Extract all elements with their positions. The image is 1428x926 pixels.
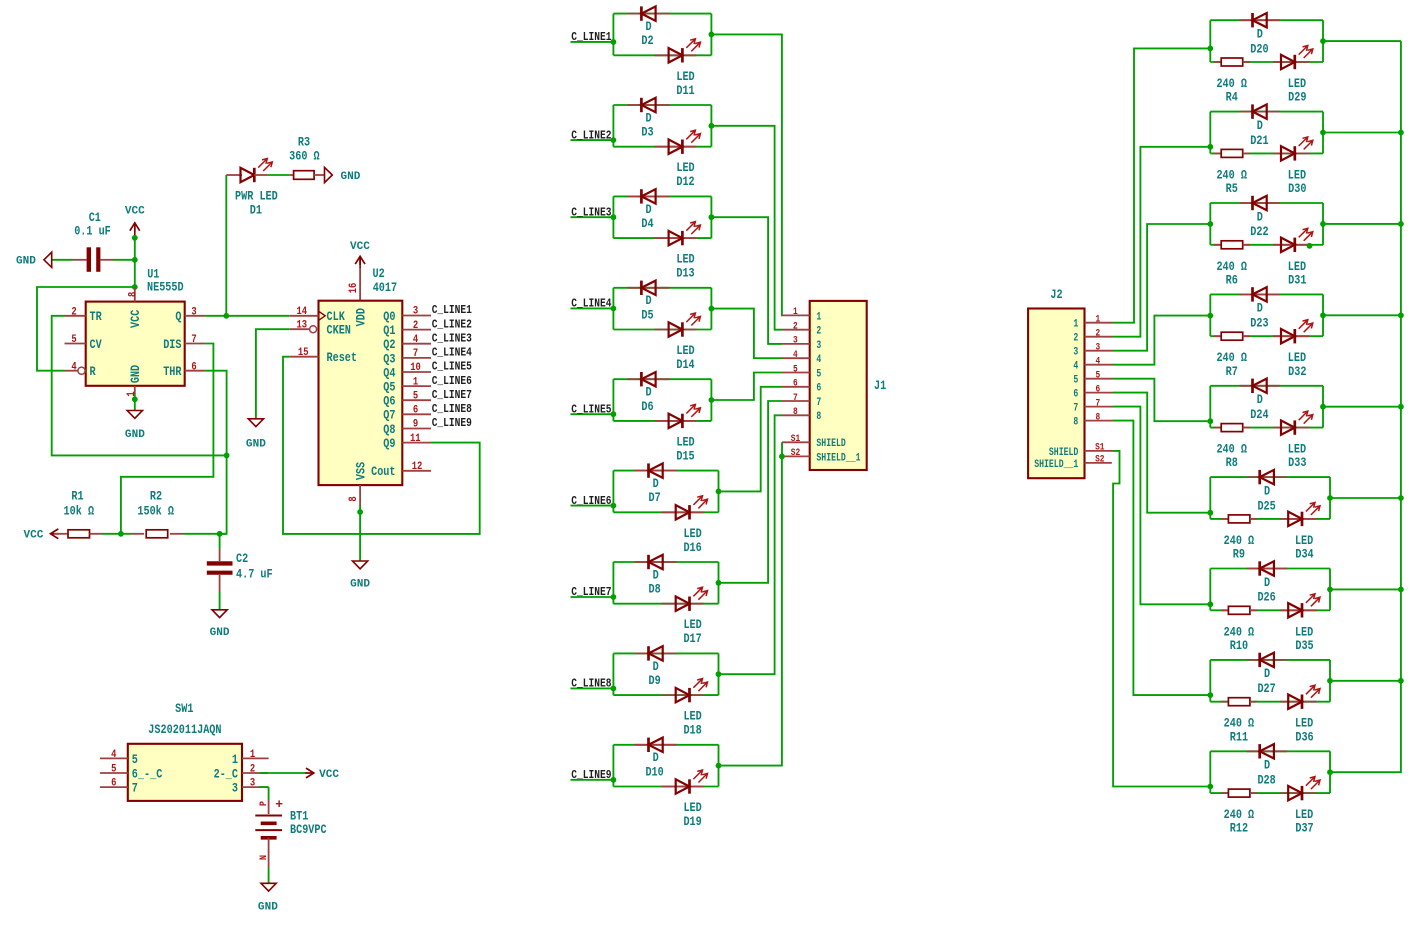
diode D5 bbox=[627, 281, 669, 323]
svg-text:15: 15 bbox=[298, 347, 309, 359]
diode D3 bbox=[627, 98, 669, 140]
svg-text:NE555D: NE555D bbox=[147, 280, 184, 294]
junction bus at cell6 bbox=[1398, 495, 1404, 501]
svg-text:C_LINE7: C_LINE7 bbox=[571, 585, 611, 599]
pin 3 of J2 bbox=[1073, 342, 1113, 359]
svg-text:BC9VPC: BC9VPC bbox=[290, 823, 327, 837]
pin 5 of J1 bbox=[782, 363, 821, 380]
node C_LINE5 label bbox=[571, 402, 614, 416]
svg-text:C_LINE1: C_LINE1 bbox=[571, 30, 611, 44]
wire cell9 output to J1 shield bbox=[719, 456, 782, 765]
svg-text:GND: GND bbox=[125, 429, 145, 441]
svg-text:1: 1 bbox=[816, 311, 821, 323]
svg-text:C1: C1 bbox=[89, 211, 102, 225]
svg-text:J2: J2 bbox=[1050, 288, 1062, 302]
junction cell1 output tap bbox=[709, 32, 715, 38]
junction C_LINE6 label lead bbox=[611, 503, 617, 509]
pin Q8 of U2 (pin 9) with net label C_LINE9 bbox=[383, 416, 472, 437]
wire cell7 output to J1 pin 7 bbox=[719, 401, 783, 583]
svg-text:240 Ω: 240 Ω bbox=[1224, 808, 1255, 822]
svg-text:3: 3 bbox=[793, 335, 798, 346]
pin 2 TR of U1 bbox=[65, 307, 103, 325]
pin Q6 of U2 (pin 5) with net label C_LINE7 bbox=[383, 388, 472, 409]
svg-text:D27: D27 bbox=[1257, 682, 1275, 696]
ground GND (CKEN) bbox=[246, 419, 266, 451]
wire SW1 pin3 to BT1 bbox=[268, 787, 270, 800]
svg-text:R9: R9 bbox=[1233, 548, 1245, 562]
wire cell8 output to common bus bbox=[1330, 680, 1401, 682]
resistor R3 bbox=[289, 136, 324, 180]
svg-text:2: 2 bbox=[413, 320, 418, 332]
svg-text:C_LINE8: C_LINE8 bbox=[571, 677, 611, 691]
wire cell4 output to common bus bbox=[1323, 314, 1401, 316]
svg-text:4017: 4017 bbox=[373, 281, 397, 295]
junction cell9 output tap (right) bbox=[1327, 769, 1333, 775]
pin 2 of J2 bbox=[1073, 328, 1113, 345]
svg-text:R2: R2 bbox=[150, 489, 162, 503]
svg-text:C_LINE3: C_LINE3 bbox=[571, 205, 611, 219]
svg-text:C_LINE4: C_LINE4 bbox=[571, 297, 611, 311]
svg-text:D4: D4 bbox=[641, 217, 654, 231]
svg-text:LED: LED bbox=[1288, 260, 1307, 274]
node C_LINE1 cell loop wires bbox=[613, 14, 711, 56]
svg-text:2: 2 bbox=[816, 326, 821, 338]
svg-text:5: 5 bbox=[132, 753, 138, 767]
node C_LINE8 cell loop wires bbox=[613, 653, 718, 695]
svg-text:1: 1 bbox=[793, 306, 798, 317]
LED D11 bbox=[655, 39, 701, 98]
svg-text:C_LINE6: C_LINE6 bbox=[571, 494, 611, 508]
svg-text:D26: D26 bbox=[1257, 591, 1275, 605]
svg-text:R5: R5 bbox=[1226, 182, 1238, 196]
svg-text:GND: GND bbox=[129, 365, 143, 384]
svg-text:16: 16 bbox=[348, 283, 360, 294]
svg-text:TR: TR bbox=[90, 310, 103, 324]
pin Q4 of U2 (pin 10) with net label C_LINE5 bbox=[383, 360, 472, 381]
junction C2 top bbox=[217, 531, 223, 537]
svg-text:5: 5 bbox=[793, 363, 798, 374]
svg-text:Q2: Q2 bbox=[383, 338, 395, 352]
svg-text:D3: D3 bbox=[641, 126, 653, 140]
diode D10 bbox=[635, 738, 677, 780]
resistor R4 bbox=[1214, 58, 1250, 105]
pin 5 of J2 bbox=[1073, 370, 1113, 387]
svg-text:5: 5 bbox=[816, 368, 821, 380]
resistor R9 bbox=[1221, 515, 1257, 562]
LED D16 bbox=[662, 496, 708, 555]
svg-text:D1: D1 bbox=[250, 204, 263, 218]
svg-text:8: 8 bbox=[127, 291, 139, 296]
svg-text:2: 2 bbox=[250, 764, 255, 776]
svg-text:D34: D34 bbox=[1295, 548, 1314, 562]
ground GND (left of C1) bbox=[16, 252, 52, 267]
junction bus at cell2 bbox=[1398, 130, 1404, 136]
pin 2 of J1 bbox=[782, 321, 821, 338]
svg-text:Q9: Q9 bbox=[383, 437, 395, 451]
svg-text:2: 2 bbox=[793, 321, 798, 332]
power VCC (above U2) bbox=[350, 241, 370, 268]
svg-text:THR: THR bbox=[163, 365, 182, 379]
diode D6 bbox=[627, 372, 669, 414]
svg-text:CKEN: CKEN bbox=[327, 324, 351, 338]
junction cell9 input bbox=[1207, 784, 1213, 790]
svg-text:R1: R1 bbox=[71, 489, 84, 503]
node C_LINE6 cell loop wires bbox=[613, 471, 718, 513]
svg-text:240 Ω: 240 Ω bbox=[1224, 534, 1255, 548]
junction R1/R2/DIS bbox=[118, 531, 124, 537]
node C_LINE7 cell loop wires bbox=[613, 562, 718, 604]
svg-text:1: 1 bbox=[250, 749, 255, 761]
node LINE6 receiver cell loop wires bbox=[1210, 477, 1330, 519]
svg-text:Q: Q bbox=[175, 310, 181, 324]
svg-text:LED: LED bbox=[676, 435, 695, 449]
junction cell3 output tap bbox=[709, 214, 715, 220]
svg-text:D30: D30 bbox=[1288, 182, 1306, 196]
svg-text:GND: GND bbox=[258, 902, 278, 914]
svg-text:4.7 uF: 4.7 uF bbox=[236, 567, 273, 581]
junction cell2 output tap bbox=[709, 123, 715, 129]
svg-text:D: D bbox=[1257, 119, 1263, 133]
node LINE3 receiver cell loop wires bbox=[1210, 203, 1323, 245]
svg-text:Q1: Q1 bbox=[383, 324, 396, 338]
svg-text:D: D bbox=[1264, 484, 1270, 498]
svg-text:D: D bbox=[1264, 667, 1270, 681]
svg-text:D: D bbox=[1264, 576, 1270, 590]
LED D14 bbox=[655, 313, 701, 372]
pin 15 Reset of U2 bbox=[290, 347, 357, 365]
diode D23 bbox=[1240, 287, 1280, 330]
svg-text:D: D bbox=[646, 386, 652, 400]
LED D15 bbox=[655, 404, 701, 463]
junction cell5 output tap bbox=[709, 397, 715, 403]
svg-text:C_LINE6: C_LINE6 bbox=[432, 374, 472, 388]
svg-text:C_LINE9: C_LINE9 bbox=[571, 768, 611, 782]
wire node A down to R2/C2 row bbox=[220, 455, 227, 533]
diode D9 bbox=[635, 646, 677, 688]
svg-text:VDD: VDD bbox=[354, 308, 368, 327]
svg-text:C_LINE3: C_LINE3 bbox=[432, 331, 472, 345]
wire cell4 output to J1 pin 4 bbox=[711, 309, 782, 359]
svg-text:D: D bbox=[1257, 28, 1263, 42]
node C_LINE6 label bbox=[571, 494, 614, 508]
pin Q9 of U2 (pin 11) bbox=[383, 433, 431, 451]
pin 5 of SW1 (left) bbox=[100, 764, 163, 782]
svg-text:C2: C2 bbox=[236, 552, 248, 566]
svg-text:SHIELD__1: SHIELD__1 bbox=[1034, 459, 1078, 471]
svg-text:VSS: VSS bbox=[354, 462, 368, 481]
svg-text:1: 1 bbox=[232, 753, 238, 767]
svg-text:4: 4 bbox=[793, 349, 798, 360]
resistor R10 bbox=[1221, 606, 1257, 653]
svg-text:N: N bbox=[259, 855, 270, 860]
svg-text:Q6: Q6 bbox=[383, 395, 395, 409]
svg-text:D33: D33 bbox=[1288, 456, 1306, 470]
wire R2 to node A corner bbox=[121, 533, 131, 535]
wire SW1 pin2 to VCC bbox=[269, 772, 307, 774]
svg-text:D: D bbox=[646, 203, 652, 217]
svg-text:6: 6 bbox=[191, 361, 196, 373]
svg-text:0.1 uF: 0.1 uF bbox=[74, 224, 111, 238]
svg-text:1: 1 bbox=[1073, 319, 1078, 331]
svg-text:D5: D5 bbox=[641, 308, 653, 322]
svg-text:GND: GND bbox=[350, 579, 370, 591]
svg-text:8: 8 bbox=[348, 496, 360, 501]
pin 4 R of U1 (inverted) bbox=[65, 361, 96, 379]
wire Q junction up to LED D1 bbox=[225, 175, 227, 316]
pin S2 SHIELD__1 of J2 bbox=[1034, 454, 1112, 471]
resistor R2 bbox=[131, 489, 184, 537]
wire cell1 output to J1 pin 1 bbox=[711, 34, 782, 315]
svg-text:D: D bbox=[1257, 210, 1263, 224]
resistor R8 bbox=[1214, 424, 1250, 471]
wire cell5 output to J1 pin 5 bbox=[711, 373, 782, 401]
svg-text:3: 3 bbox=[1095, 342, 1100, 353]
svg-text:D29: D29 bbox=[1288, 91, 1306, 105]
svg-text:D8: D8 bbox=[649, 583, 661, 597]
battery BT1 BC9VPC bbox=[255, 797, 327, 868]
junction cell1 input bbox=[1207, 46, 1213, 52]
wire J2 pin 3 to cell3 input bbox=[1113, 224, 1210, 351]
svg-text:LED: LED bbox=[1295, 717, 1314, 731]
svg-text:GND: GND bbox=[210, 627, 230, 639]
node LINE1 receiver cell loop wires bbox=[1210, 20, 1323, 62]
svg-text:240 Ω: 240 Ω bbox=[1216, 168, 1247, 182]
pin 3 of J1 bbox=[782, 335, 821, 352]
node C_LINE4 label bbox=[571, 297, 614, 311]
diode D28 bbox=[1247, 744, 1287, 787]
pin S1 SHIELD of J2 bbox=[1049, 442, 1113, 459]
svg-text:2: 2 bbox=[71, 307, 76, 319]
svg-text:Q5: Q5 bbox=[383, 381, 395, 395]
svg-text:D36: D36 bbox=[1295, 730, 1313, 744]
svg-text:Q3: Q3 bbox=[383, 352, 395, 366]
diode D25 bbox=[1247, 470, 1287, 513]
svg-text:D2: D2 bbox=[641, 34, 653, 48]
svg-text:S1: S1 bbox=[791, 433, 800, 444]
svg-text:LED: LED bbox=[1288, 351, 1307, 365]
wire J2 pin 4 to cell4 input bbox=[1113, 316, 1210, 365]
svg-text:D23: D23 bbox=[1250, 317, 1268, 331]
svg-text:R10: R10 bbox=[1230, 639, 1248, 653]
svg-text:S1: S1 bbox=[1095, 442, 1104, 453]
ground GND (under U1) bbox=[125, 411, 145, 442]
LED D32 bbox=[1273, 320, 1313, 379]
svg-text:LED: LED bbox=[1295, 625, 1314, 639]
svg-text:8: 8 bbox=[816, 411, 821, 423]
svg-text:6: 6 bbox=[111, 778, 116, 790]
svg-text:12: 12 bbox=[412, 461, 423, 473]
node C_LINE2 cell loop wires bbox=[613, 105, 711, 147]
LED D37 bbox=[1280, 777, 1320, 836]
junction stray (cell3 LED output) bbox=[1307, 243, 1313, 249]
junction cell8 input bbox=[1207, 692, 1213, 698]
svg-text:CV: CV bbox=[90, 338, 103, 352]
diode D7 bbox=[635, 463, 677, 505]
pin 4 of SW1 (left) bbox=[100, 749, 138, 767]
svg-text:LED: LED bbox=[1288, 443, 1307, 457]
svg-text:1: 1 bbox=[126, 391, 138, 396]
LED D35 bbox=[1280, 594, 1320, 653]
wire J2 S1 shield to cell9 input bbox=[1113, 451, 1210, 787]
svg-text:5: 5 bbox=[111, 764, 116, 776]
diode D22 bbox=[1240, 196, 1280, 239]
svg-text:VCC: VCC bbox=[125, 206, 145, 218]
LED D33 bbox=[1273, 411, 1313, 470]
junction cell4 output tap (right) bbox=[1320, 312, 1326, 318]
svg-text:3: 3 bbox=[191, 307, 196, 319]
svg-text:D32: D32 bbox=[1288, 365, 1306, 379]
svg-text:1: 1 bbox=[1095, 314, 1100, 325]
connector J1 body bbox=[810, 301, 887, 470]
svg-text:7: 7 bbox=[132, 782, 138, 796]
junction bus at cell8 bbox=[1398, 678, 1404, 684]
svg-text:D: D bbox=[653, 568, 659, 582]
pin Q1 of U2 (pin 2) with net label C_LINE2 bbox=[383, 317, 472, 338]
pin 1 of SW1 (right) bbox=[232, 749, 269, 767]
svg-text:LED: LED bbox=[683, 710, 702, 724]
svg-text:3: 3 bbox=[413, 306, 418, 318]
svg-text:LED: LED bbox=[676, 253, 695, 267]
svg-text:VCC: VCC bbox=[319, 769, 339, 781]
pin 2 of SW1 (right) bbox=[214, 764, 269, 782]
svg-text:D: D bbox=[653, 477, 659, 491]
resistor R12 bbox=[1221, 789, 1257, 836]
junction cell9 output tap bbox=[716, 763, 722, 769]
pin Cout of U2 (pin 12) bbox=[371, 461, 431, 479]
wire J2 pin 6 to cell6 input bbox=[1113, 393, 1210, 513]
svg-text:D9: D9 bbox=[649, 674, 661, 688]
node LINE7 receiver cell loop wires bbox=[1210, 569, 1330, 611]
wire cell8 output to J1 pin 8 bbox=[719, 415, 783, 674]
junction cell7 output tap (right) bbox=[1327, 587, 1333, 593]
LED D1 PWR LED bbox=[226, 159, 278, 218]
pin 6 of J2 bbox=[1073, 383, 1113, 400]
pin 7 DIS of U1 bbox=[163, 334, 205, 352]
wire cell6 output to J1 pin 6 bbox=[719, 387, 783, 492]
junction cell5 output tap (right) bbox=[1320, 404, 1326, 410]
capacitor C2 bbox=[207, 549, 273, 592]
node LINE4 receiver cell loop wires bbox=[1210, 294, 1323, 336]
pin 5 CV of U1 bbox=[65, 334, 103, 352]
LED D30 bbox=[1273, 137, 1313, 196]
wire U1 pin1 to GND bbox=[134, 394, 136, 411]
svg-text:C_LINE9: C_LINE9 bbox=[432, 416, 472, 430]
ground GND (under C2) bbox=[210, 610, 230, 639]
svg-text:GND: GND bbox=[246, 439, 266, 451]
pin Q2 of U2 (pin 4) with net label C_LINE3 bbox=[383, 331, 472, 352]
wire common bus down to cell9 output bbox=[1330, 41, 1401, 772]
pin 16 VDD lead of U2 bbox=[348, 268, 360, 301]
svg-text:240 Ω: 240 Ω bbox=[1216, 443, 1247, 457]
svg-text:R8: R8 bbox=[1226, 456, 1238, 470]
svg-text:D16: D16 bbox=[683, 541, 701, 555]
svg-text:240 Ω: 240 Ω bbox=[1224, 717, 1255, 731]
svg-text:P: P bbox=[259, 801, 270, 806]
svg-text:D22: D22 bbox=[1250, 225, 1268, 239]
wire cell1 output to common bus bbox=[1323, 40, 1401, 42]
svg-text:D: D bbox=[653, 660, 659, 674]
pin Q5 of U2 (pin 1) with net label C_LINE6 bbox=[383, 374, 472, 395]
wire SW1 pin3 green overlay bbox=[259, 786, 268, 788]
junction cell6 input bbox=[1207, 510, 1213, 516]
svg-text:JS202011JAQN: JS202011JAQN bbox=[148, 723, 221, 737]
svg-text:LED: LED bbox=[1288, 77, 1307, 91]
svg-text:6_-_C: 6_-_C bbox=[132, 767, 163, 781]
svg-text:LED: LED bbox=[683, 618, 702, 632]
svg-text:S2: S2 bbox=[1095, 454, 1104, 465]
svg-text:SHIELD: SHIELD bbox=[816, 438, 845, 450]
svg-text:U1: U1 bbox=[147, 268, 160, 282]
wire R1 to junction bbox=[102, 533, 121, 535]
svg-text:D7: D7 bbox=[649, 491, 661, 505]
ground GND (under BT1) bbox=[258, 883, 278, 913]
pin S2 SHIELD__1 of J1 bbox=[782, 447, 861, 464]
svg-text:D: D bbox=[646, 111, 652, 125]
junction cell7 output tap bbox=[716, 580, 722, 586]
svg-text:LED: LED bbox=[676, 70, 695, 84]
svg-text:3: 3 bbox=[1073, 347, 1078, 359]
svg-text:9: 9 bbox=[413, 419, 418, 431]
svg-text:240 Ω: 240 Ω bbox=[1216, 351, 1247, 365]
svg-text:D19: D19 bbox=[683, 815, 701, 829]
svg-text:GND: GND bbox=[16, 255, 36, 267]
svg-text:10k Ω: 10k Ω bbox=[64, 505, 95, 519]
svg-text:D20: D20 bbox=[1250, 42, 1268, 56]
wire J1 S1 to S2 bbox=[781, 442, 783, 456]
pin 6 of J1 bbox=[782, 378, 821, 395]
resistor R5 bbox=[1214, 149, 1250, 196]
svg-text:D31: D31 bbox=[1288, 273, 1307, 287]
pin 8 VCC of U1 (top) bbox=[127, 287, 143, 328]
wire C1 to GND bbox=[51, 259, 72, 261]
junction cell6 output tap (right) bbox=[1327, 495, 1333, 501]
svg-text:Q7: Q7 bbox=[383, 409, 395, 423]
pin 7 of J1 bbox=[782, 392, 821, 409]
LED D17 bbox=[662, 587, 708, 646]
svg-text:10: 10 bbox=[410, 362, 421, 374]
svg-text:C_LINE2: C_LINE2 bbox=[571, 128, 611, 142]
svg-text:3: 3 bbox=[816, 340, 821, 352]
svg-text:5: 5 bbox=[413, 390, 418, 402]
wire Q output to CLK bbox=[205, 315, 290, 317]
wire J2 pin 1 to cell1 input bbox=[1113, 48, 1210, 322]
diode D27 bbox=[1247, 653, 1287, 696]
wire BT1 to GND bbox=[268, 868, 270, 883]
LED D19 bbox=[662, 770, 708, 829]
wire DIS to R1/R2 junction bbox=[121, 344, 213, 534]
node C_LINE8 label bbox=[571, 677, 614, 691]
svg-text:D15: D15 bbox=[676, 449, 694, 463]
switch SW1 JS202011JAQN body bbox=[128, 702, 242, 801]
svg-text:8: 8 bbox=[793, 406, 798, 417]
svg-text:2-_C: 2-_C bbox=[214, 767, 239, 781]
svg-text:LED: LED bbox=[1295, 808, 1314, 822]
svg-text:D21: D21 bbox=[1250, 134, 1269, 148]
svg-text:2: 2 bbox=[1073, 333, 1078, 345]
svg-text:R12: R12 bbox=[1230, 822, 1248, 836]
svg-text:PWR LED: PWR LED bbox=[235, 189, 278, 203]
resistor R11 bbox=[1221, 698, 1257, 745]
diode D21 bbox=[1240, 104, 1280, 147]
wire D1 to R3 bbox=[268, 174, 290, 176]
svg-text:C_LINE7: C_LINE7 bbox=[432, 388, 472, 402]
junction C_LINE1 label lead bbox=[611, 39, 617, 45]
svg-text:Q0: Q0 bbox=[383, 310, 395, 324]
wire J2 pin 2 to cell2 input bbox=[1113, 147, 1210, 337]
svg-text:13: 13 bbox=[297, 319, 308, 331]
svg-text:R6: R6 bbox=[1226, 273, 1238, 287]
power VCC (top left) bbox=[125, 206, 145, 238]
